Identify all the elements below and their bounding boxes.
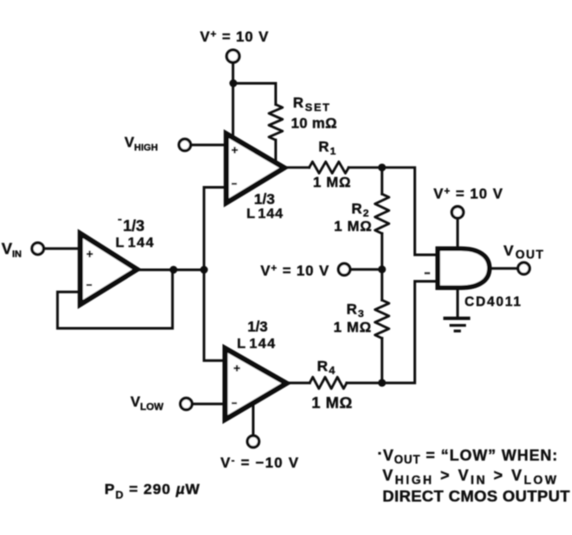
wire V+ top terminal to junction	[232, 62, 235, 84]
label 1/3 (U1B)	[118, 219, 122, 221]
wire R4 to junction	[347, 382, 382, 385]
svg-text:V+ = 10 V: V+ = 10 V	[261, 263, 330, 279]
wire gate output to VOUT terminal	[489, 267, 518, 270]
terminal V-	[247, 436, 259, 448]
svg-text:DIRECT CMOS OUTPUT: DIRECT CMOS OUTPUT	[383, 488, 571, 505]
terminal V+ top	[227, 50, 240, 63]
wire gate ground stub	[456, 288, 459, 317]
svg-text:L144: L144	[237, 335, 276, 351]
terminal V+ mid	[338, 264, 350, 276]
node A junction dot	[200, 266, 208, 274]
NAND gate U2 CD4011	[438, 249, 490, 288]
annotation dot before VOUT note	[378, 452, 381, 455]
node feedback junction dot	[170, 266, 178, 274]
node R2/R3/V+ junction dot	[378, 266, 386, 274]
wire node A down to U1C + input	[204, 270, 225, 361]
resistor RSET 10 Mohm (vertical)	[269, 105, 283, 141]
wire VIN terminal to U1B + input	[44, 247, 80, 250]
svg-text:V+ = 10 V: V+ = 10 V	[200, 30, 269, 46]
op-amp U1B 1/3 L144 (VIN buffer)	[80, 234, 137, 305]
node R3/R4 junction dot	[378, 379, 386, 387]
svg-text:1 MΩ: 1 MΩ	[313, 175, 351, 191]
terminal VOUT	[518, 263, 530, 275]
wire RSET bottom to U1A	[274, 140, 277, 162]
op-amp U1A 1/3 L144 (VHIGH comparator)	[226, 134, 284, 203]
terminal VHIGH	[179, 139, 191, 151]
terminal VIN	[32, 243, 44, 255]
svg-text:L144: L144	[247, 205, 284, 221]
stray dash artifact left of gate	[425, 272, 431, 274]
wire VLOW terminal to U1C - input	[192, 403, 225, 406]
wire V+ junction down to op-amp U1A power	[232, 83, 235, 140]
svg-text:L144: L144	[116, 234, 155, 250]
wire U1A output to R1	[283, 166, 309, 169]
svg-text:1/3: 1/3	[248, 319, 268, 335]
wire R4 junction to gate input 2	[382, 281, 438, 383]
wire U1B output to node A	[138, 268, 204, 271]
svg-text:1 MΩ: 1 MΩ	[334, 219, 372, 235]
wire R2 bottom to mid junction	[381, 234, 384, 270]
wire U1C output to R4	[285, 382, 310, 385]
wire junction to R2 top	[381, 168, 384, 195]
wire mid junction to R3 top	[381, 269, 384, 300]
wire V+ junction to RSET top	[233, 83, 275, 104]
node R1/R2 junction dot	[378, 164, 386, 172]
resistor R2 1 Mohm (vertical)	[375, 194, 389, 234]
ground symbol below U2	[443, 318, 470, 331]
wire R1 to junction	[349, 166, 382, 169]
terminal VLOW	[180, 398, 192, 410]
wire R3 bottom to junction	[381, 338, 384, 383]
wire U1C to V- terminal	[252, 402, 255, 436]
wire U1A - input to node A	[204, 187, 226, 269]
op-amp U1C 1/3 L144 (VLOW comparator)	[225, 348, 286, 419]
wire gate V+ stub	[456, 218, 459, 249]
resistor R3 1 Mohm (vertical)	[375, 300, 389, 338]
svg-text:V+ = 10 V: V+ = 10 V	[434, 186, 504, 202]
wire VHIGH terminal to U1A + input	[191, 144, 227, 147]
wire V+ mid terminal to junction	[350, 268, 382, 271]
svg-text:1/3: 1/3	[123, 218, 145, 235]
resistor R1 1 Mohm (horizontal)	[309, 162, 349, 174]
node V+ junction dot	[229, 79, 237, 87]
wire U1B feedback loop	[58, 270, 173, 329]
svg-text:CD4011: CD4011	[465, 294, 523, 309]
svg-text:1 MΩ: 1 MΩ	[334, 320, 372, 336]
resistor R4 1 Mohm (horizontal)	[310, 377, 347, 389]
wire R1 junction to gate input 1	[382, 168, 438, 255]
terminal V+ gate	[452, 207, 464, 219]
svg-text:1 MΩ: 1 MΩ	[312, 395, 353, 412]
svg-text:10 mΩ: 10 mΩ	[291, 116, 337, 132]
